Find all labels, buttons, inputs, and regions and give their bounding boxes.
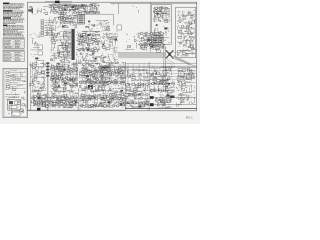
svg-text:FIG. 1: FIG. 1 bbox=[186, 117, 193, 120]
